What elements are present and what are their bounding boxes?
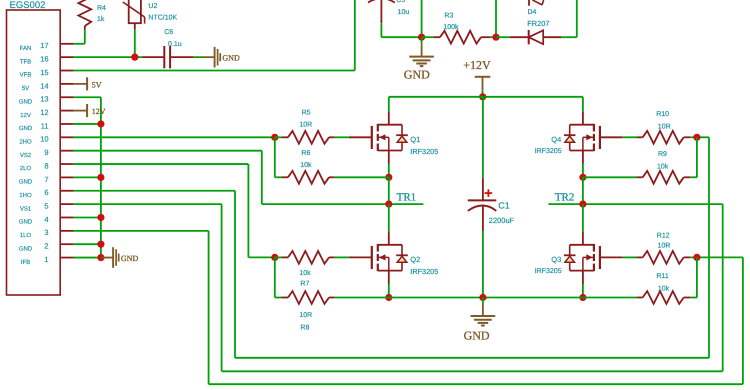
wire pin13 GND vertical (74, 96, 101, 98)
wire TR2 to Q3 drain (582, 204, 584, 232)
resistor R5 10R (271, 134, 278, 141)
junction bottom rail GND (479, 294, 486, 301)
capacitor C5 10u (partial) (368, 0, 395, 3)
svg-text:1LO: 1LO (20, 232, 32, 239)
svg-text:GND: GND (404, 67, 430, 81)
wire Q2 source (388, 284, 390, 298)
capacitor C1 2200uF (482, 97, 484, 178)
svg-text:11: 11 (41, 121, 49, 130)
pin 10 2HO stub (60, 136, 73, 138)
svg-text:2: 2 (44, 242, 48, 251)
svg-text:TFB: TFB (20, 58, 31, 65)
svg-text:1: 1 (44, 255, 48, 264)
junction node TR2 (579, 201, 586, 208)
wire Q1 drain (388, 97, 390, 112)
svg-text:15: 15 (40, 68, 48, 77)
svg-text:2LO: 2LO (20, 165, 32, 172)
wire TR1 to Q2 drain (388, 204, 390, 232)
resistor R10 10R (637, 136, 643, 138)
net label TR2 wire (548, 203, 722, 205)
resistor R3 100k (422, 36, 434, 38)
resistor R7 10k (271, 254, 278, 261)
wire pin2 GND (74, 243, 101, 245)
svg-text:16: 16 (40, 55, 48, 64)
wire Q4 source (582, 164, 584, 177)
svg-text:10u: 10u (398, 9, 410, 16)
svg-text:5V: 5V (22, 85, 29, 92)
pin 5 VS1 stub (60, 203, 73, 205)
junction +12V rail (479, 93, 486, 100)
svg-text:GND: GND (19, 219, 33, 226)
svg-text:R3: R3 (444, 13, 453, 20)
svg-text:2200uF: 2200uF (489, 216, 515, 225)
svg-text:VS2: VS2 (20, 152, 32, 159)
diode D4 FR207 (496, 36, 510, 38)
wire TR1 vertical (388, 177, 390, 204)
wire Q3 source (582, 284, 584, 298)
svg-text:7: 7 (44, 175, 48, 184)
svg-text:10: 10 (40, 135, 48, 144)
svg-text:1HO: 1HO (19, 192, 32, 199)
svg-text:IFB: IFB (21, 259, 30, 266)
junction Q3 source (579, 294, 586, 301)
wire R6 to Q1 source node (335, 176, 389, 178)
ground GND (node A) (421, 37, 423, 44)
wire bottom rail (389, 297, 583, 299)
junction node TR1 (385, 201, 392, 208)
svg-text:100k: 100k (443, 23, 459, 31)
junction Q1 source (385, 174, 392, 181)
svg-text:GND: GND (19, 98, 33, 105)
resistor R9 10k (684, 176, 690, 178)
pin 9 VS2 stub (60, 150, 73, 152)
junction R10/R9 (693, 134, 700, 141)
svg-text:IRF3205: IRF3205 (535, 268, 562, 275)
junction pin2 (97, 241, 104, 248)
svg-text:TR2: TR2 (555, 192, 575, 204)
transistor Q4 IRF3205 (600, 136, 623, 138)
svg-text:VS1: VS1 (20, 205, 32, 212)
junction node B (492, 34, 499, 41)
svg-text:D4: D4 (528, 9, 537, 16)
svg-text:VFB: VFB (20, 72, 32, 79)
wire pin4 GND (74, 216, 101, 218)
wire node A up (421, 0, 423, 37)
wire pin17 FAN to R4 (74, 43, 85, 45)
svg-text:Q1: Q1 (410, 135, 420, 144)
svg-text:GND: GND (464, 329, 490, 343)
wire R8 to Q2 source node (335, 297, 389, 299)
power port 5V (74, 83, 88, 85)
capacitor C6 0.1u (142, 56, 164, 58)
wire pin1 IFB to GND port (74, 257, 101, 259)
svg-text:R10: R10 (656, 111, 669, 118)
svg-text:R4: R4 (97, 5, 106, 12)
svg-text:10k: 10k (657, 162, 669, 170)
wire R3 to node B (490, 36, 496, 38)
junction pin11 (97, 120, 104, 127)
svg-text:4: 4 (44, 215, 48, 224)
pin 2 GND stub (60, 243, 73, 245)
svg-text:12V: 12V (92, 107, 106, 116)
thermistor U2 NTC/10K (129, 0, 141, 23)
junction pin4 (97, 214, 104, 221)
pin 3 1LO stub (60, 230, 73, 232)
wire R9 to Q4 source node (583, 176, 637, 178)
svg-text:+12V: +12V (463, 58, 491, 72)
svg-text:R9: R9 (658, 151, 667, 158)
svg-text:5V: 5V (92, 80, 102, 89)
junction pin1 (97, 254, 104, 261)
svg-text:12: 12 (40, 108, 48, 117)
wire R9 right vertical (696, 137, 698, 177)
svg-text:10k: 10k (300, 161, 312, 169)
svg-text:8: 8 (44, 161, 48, 170)
pin 13 GND stub (60, 96, 73, 98)
pin 12 12V stub (60, 110, 73, 112)
svg-text:IRF3205: IRF3205 (535, 148, 562, 155)
junction pin7 (97, 174, 104, 181)
wire pin9 VS2 to TR1 (74, 150, 262, 152)
wire +12V rail (389, 96, 583, 98)
pin 14 5V stub (60, 83, 73, 85)
wire pin10 2HO to R5/R6 (74, 136, 275, 138)
svg-text:R6: R6 (301, 150, 310, 157)
svg-text:GND: GND (19, 245, 33, 252)
pin 4 GND stub (60, 216, 73, 218)
wire R5/R6 left vertical (274, 137, 276, 177)
svg-text:C6: C6 (164, 29, 173, 36)
svg-text:GND: GND (19, 179, 33, 186)
svg-text:2HO: 2HO (19, 139, 32, 146)
wire pin11 GND (74, 123, 101, 125)
pin 8 2LO stub (60, 163, 73, 165)
svg-text:R5: R5 (302, 109, 311, 116)
wire R5 to Q1 gate (335, 136, 349, 138)
svg-text:10R: 10R (299, 312, 312, 319)
junction node U2/C6 (131, 54, 138, 61)
wire C6 to GND port (193, 56, 202, 58)
wire R7/R8 left vertical (274, 257, 276, 297)
wire R7 to Q2 gate (335, 256, 349, 258)
svg-text:C1: C1 (498, 200, 510, 210)
wire U2 to node (134, 29, 136, 57)
svg-text:EGS002: EGS002 (10, 0, 46, 11)
resistor R6 10k (275, 176, 282, 178)
pin 16 TFB stub (60, 56, 73, 58)
pin 7 GND stub (60, 176, 73, 178)
wire pin7 GND (74, 176, 101, 178)
wire pin15 VFB (74, 70, 355, 72)
pin 6 1HO stub (60, 190, 73, 192)
svg-text:U2: U2 (148, 3, 157, 10)
svg-text:10R: 10R (658, 242, 671, 249)
diode D2 (partial) (528, 0, 530, 6)
svg-text:17: 17 (40, 41, 48, 50)
resistor R12 10R (637, 256, 643, 258)
svg-text:TR1: TR1 (397, 192, 417, 204)
wire R11 to Q3 source node (583, 297, 637, 299)
wire C1 to bottom rail (482, 207, 484, 232)
svg-text:0.1u: 0.1u (168, 41, 182, 48)
svg-text:5: 5 (44, 202, 48, 211)
svg-text:R7: R7 (300, 281, 309, 288)
pin 11 GND stub (60, 123, 73, 125)
wire pin16 TFB to C6 (74, 56, 143, 58)
connector U1 EGS002 body (7, 10, 61, 295)
ground GND (bottom) (482, 298, 484, 304)
ground port GND (pin1 IFB) (101, 257, 113, 259)
svg-text:13: 13 (40, 95, 48, 104)
svg-text:1k: 1k (97, 15, 105, 23)
resistor R8 10R (275, 297, 282, 299)
pin 1 IFB stub (60, 257, 73, 259)
wire Q3 gate to R12 (623, 256, 637, 258)
svg-text:FAN: FAN (20, 45, 32, 52)
svg-text:IRF3205: IRF3205 (410, 147, 438, 156)
svg-text:3: 3 (44, 228, 48, 237)
junction Q4 source (579, 174, 586, 181)
wire C5 to node A (381, 36, 421, 38)
svg-text:Q4: Q4 (551, 135, 561, 144)
svg-text:GND: GND (121, 254, 139, 263)
transistor Q3 IRF3205 (600, 256, 623, 258)
wire Q1 source (388, 164, 390, 177)
wire D4 up (561, 36, 577, 38)
svg-text:FR207: FR207 (527, 19, 549, 28)
svg-text:Q2: Q2 (410, 255, 420, 264)
svg-text:14: 14 (40, 81, 48, 90)
svg-text:R8: R8 (300, 325, 309, 332)
junction Q2 source (385, 294, 392, 301)
svg-text:10k: 10k (658, 284, 670, 292)
resistor R4 (84, 26, 86, 30)
svg-text:IRF3205: IRF3205 (410, 267, 438, 276)
ground port GND (C6) (202, 56, 214, 58)
svg-text:10R: 10R (658, 123, 671, 130)
svg-text:R11: R11 (656, 273, 668, 280)
svg-text:12V: 12V (20, 112, 31, 119)
junction R12/R11 (693, 254, 700, 261)
wire pin3 1LO bus (74, 230, 209, 232)
pin 15 VFB stub (60, 70, 73, 72)
junction node A (418, 34, 425, 41)
wire Q4 gate to R10 (623, 136, 637, 138)
wire R11 right vertical (696, 257, 698, 297)
transistor Q2 IRF3205 (349, 256, 372, 258)
power port 12V (74, 110, 88, 112)
wire pin8 2LO to R7/R8 (74, 163, 249, 165)
svg-text:NTC/10K: NTC/10K (148, 14, 177, 22)
resistor R11 10k (684, 297, 690, 299)
svg-text:6: 6 (44, 188, 48, 197)
transistor Q1 IRF3205 (349, 136, 372, 138)
svg-text:R12: R12 (657, 232, 670, 239)
wire Q4 drain (582, 97, 584, 112)
svg-text:Q3: Q3 (551, 255, 561, 264)
pin 17 FAN stub (60, 43, 73, 45)
svg-text:10k: 10k (299, 269, 311, 277)
wire pin5 VS1 bus (74, 203, 222, 205)
svg-text:9: 9 (44, 148, 48, 157)
svg-text:10R: 10R (299, 121, 312, 128)
wire TR2 vertical (582, 177, 584, 204)
wire node B up (495, 0, 497, 37)
svg-text:GND: GND (222, 54, 240, 63)
svg-text:C5: C5 (396, 0, 405, 4)
svg-text:GND: GND (19, 125, 33, 132)
wire pin6 1HO bus (74, 190, 235, 192)
